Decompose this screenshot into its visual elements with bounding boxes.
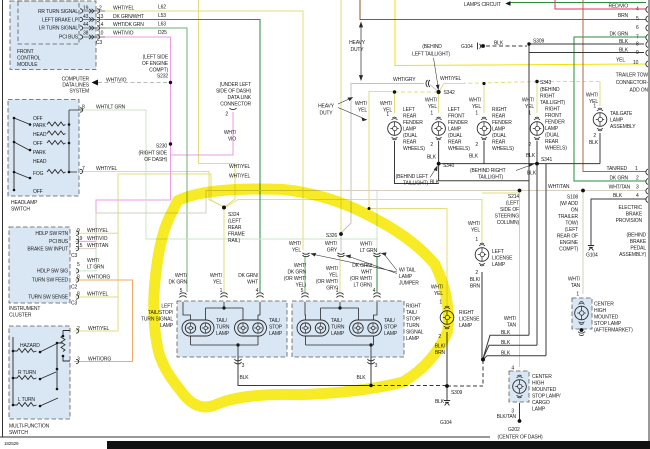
right tail/stop/turn signal lamp box [292,301,404,357]
svg-text:WHT/: WHT/ [289,241,302,247]
svg-text:RIGHT: RIGHT [492,107,507,113]
wire WHT/YEL S343 to tailgate lamp [537,81,600,83]
svg-text:DK GRN/: DK GRN/ [352,263,373,269]
svg-text:BLK: BLK [526,153,536,159]
svg-text:38: 38 [83,31,89,37]
wire WHT/YEL riser S342 to left front fender lamp pin 1 [438,92,440,113]
svg-text:3: 3 [242,363,245,369]
trailer tow connector brackets [646,7,648,203]
svg-text:LEFT TAILLIGHT): LEFT TAILLIGHT) [412,52,450,58]
svg-text:TURN: TURN [406,323,420,329]
svg-text:L TURN: L TURN [18,397,35,403]
svg-text:RIGHT: RIGHT [545,107,560,113]
svg-text:OFF: OFF [33,116,43,122]
svg-text:TAILGATE: TAILGATE [610,111,633,117]
svg-text:TAIL/: TAIL/ [406,310,418,316]
wire BLK S309 to trailer tow pins 8 and 9 and down [529,44,644,335]
tail/turn lamp left box [182,320,214,336]
left license lamp bulb [475,243,489,266]
svg-text:LEFT: LEFT [403,107,415,113]
svg-text:LT GRN: LT GRN [87,265,105,271]
node S309 bottom [445,384,449,388]
svg-text:WHT/: WHT/ [87,258,100,264]
svg-text:10: 10 [633,60,639,66]
svg-text:MULTI-FUNCTION: MULTI-FUNCTION [9,424,50,430]
svg-text:WHT/ORG: WHT/ORG [87,275,110,281]
svg-text:LAMP: LAMP [331,331,345,337]
svg-text:FOG: FOG [33,171,44,177]
svg-text:2: 2 [99,6,102,12]
wire BLK three lines to junction near license lamps [483,335,546,359]
wire WHT/YEL riser S343 to right front fender lamp pin 1 [536,82,538,114]
svg-text:HAZARD: HAZARD [20,343,40,349]
svg-text:WHT/: WHT/ [380,101,393,107]
svg-text:1: 1 [475,111,478,117]
svg-text:YEL: YEL [428,104,437,110]
svg-text:LAMP: LAMP [384,331,398,337]
wht/gry inline connector [426,80,430,87]
svg-text:TURN SW FEED: TURN SW FEED [32,278,69,284]
svg-text:BLK: BLK [469,154,479,160]
instrument cluster box [9,227,70,303]
svg-text:182529: 182529 [4,441,19,446]
svg-text:FENDER: FENDER [545,120,565,126]
svg-text:WHT: WHT [247,280,258,286]
multi-function switch box [9,326,70,419]
wire DK GRN/WHT L53 FCM pin 13 to left box pin 4 [105,20,260,293]
svg-text:REAR: REAR [228,225,242,231]
svg-text:S309: S309 [533,39,544,45]
FCM pin labels [38,9,79,41]
node S324 [222,206,226,210]
svg-text:WHT/: WHT/ [504,316,517,322]
svg-text:LEFT: LEFT [492,249,504,255]
svg-text:BLK: BLK [435,399,445,405]
svg-text:1: 1 [576,292,579,298]
svg-text:TAN: TAN [507,323,517,329]
svg-text:(LEFT: (LEFT [228,219,241,225]
svg-text:OFF: OFF [33,141,43,147]
node S232 [169,81,172,84]
svg-text:TAN: TAN [571,283,581,289]
svg-text:43: 43 [83,14,89,20]
wire WHT/TAN S108 down to aftermarket stop lamp pin 1 [582,191,584,295]
svg-text:LAMPS CIRCUIT: LAMPS CIRCUIT [464,2,501,8]
svg-text:WHT/VIO: WHT/VIO [106,78,127,84]
node S343 [535,80,538,83]
svg-text:BRAKE SW INPUT: BRAKE SW INPUT [27,247,68,253]
svg-text:S232: S232 [157,74,168,80]
wire DK GRN lamps circuit top to trailer tow pins 7 and 2 [510,3,646,182]
tail/stop lamp left box [235,320,267,336]
svg-text:LAMP: LAMP [269,331,283,337]
svg-text:YEL: YEL [472,104,481,110]
lamp box pin chevrons [180,293,381,364]
multifunction switch labels [4,326,111,446]
wire WHT/DK GRN L63 FCM pin 14 to left box pin 5 [105,28,187,292]
svg-text:TAILLIGHT): TAILLIGHT) [540,100,566,106]
wire BLK/BRN left license lamp down to junction [481,272,483,360]
svg-text:HIGH: HIGH [594,308,606,314]
svg-text:PARK: PARK [33,150,46,156]
svg-text:S214: S214 [508,194,519,200]
svg-text:2: 2 [528,142,531,148]
svg-text:SIGNAL: SIGNAL [406,330,424,336]
svg-text:STEERING: STEERING [495,214,520,220]
wire BLK S309 to ground G104 [446,386,448,397]
S326 and connector labels [289,233,338,254]
svg-text:WHT/VIO: WHT/VIO [113,31,134,37]
svg-text:WHT/YEL: WHT/YEL [229,174,251,180]
svg-text:HEAD: HEAD [33,132,47,138]
svg-text:1: 1 [635,166,638,172]
wire WHT/YEL right license feed with riser to dashed bus [369,92,447,306]
wire WHT/VIO FCM pin 10 via S232 S230 to cluster pin 19 [75,37,171,241]
svg-text:9: 9 [77,228,80,234]
svg-text:TRAILER: TRAILER [558,214,579,220]
svg-text:ENGINE: ENGINE [560,240,579,246]
svg-text:BLK: BLK [501,351,511,357]
wire BLK dashed lamp bus to S309 [371,385,447,387]
svg-text:(OR WHT/: (OR WHT/ [350,276,373,282]
node riser 369 [368,207,371,210]
wire BLK fender lamp grounds bus S340 to S341 to tailgate [439,133,600,164]
svg-text:1: 1 [593,104,596,110]
svg-text:G104: G104 [461,44,473,50]
headlamp switch labels [11,105,126,213]
svg-text:WHT/DK GRN: WHT/DK GRN [113,22,144,28]
node S214 [518,189,522,193]
svg-text:1: 1 [220,288,223,294]
svg-text:TAIL/: TAIL/ [216,318,228,324]
svg-text:4: 4 [373,288,376,294]
G104 symbol top [478,43,485,50]
wire WHT/YEL instrument cluster pin 9 / multifunction pin 2 riser to S324 [75,174,224,233]
svg-text:C2: C2 [71,285,77,291]
S324 label [228,212,246,244]
svg-text:FENDER: FENDER [492,120,512,126]
center high mounted stop lamp / cargo lamp box [509,371,529,402]
svg-text:S340: S340 [443,163,454,169]
svg-text:BLK: BLK [619,48,629,54]
svg-text:YEL: YEL [329,273,338,279]
svg-text:WHT/YEL: WHT/YEL [113,6,135,12]
svg-text:WHT/VIO: WHT/VIO [87,236,108,242]
svg-text:YEL: YEL [358,108,367,114]
svg-text:MOUNTED: MOUNTED [532,387,557,393]
svg-text:1: 1 [475,237,478,243]
svg-text:ASSEMBLY): ASSEMBLY) [619,252,646,258]
svg-text:WHT/: WHT/ [586,93,599,99]
svg-text:G202: G202 [508,427,520,433]
svg-text:(BEHIND RIGHT: (BEHIND RIGHT [470,168,506,174]
svg-text:L53: L53 [158,13,166,19]
svg-text:3: 3 [77,357,80,363]
svg-text:YEL: YEL [213,280,222,286]
svg-text:C3: C3 [71,301,77,307]
heavy duty arrows center [338,98,367,121]
svg-text:BLK: BLK [239,375,249,381]
svg-text:HEAVY: HEAVY [349,40,366,46]
svg-text:BLK: BLK [589,140,599,146]
svg-text:2: 2 [475,142,478,148]
svg-text:REAR: REAR [492,114,506,120]
svg-text:DK GRN/: DK GRN/ [238,273,259,279]
wire WHT/YEL S324 right to left license lamp [225,200,482,244]
instrument cluster labels [27,231,68,301]
svg-text:WHT/TAN: WHT/TAN [87,243,109,249]
svg-text:2: 2 [430,142,433,148]
svg-text:(BEHIND: (BEHIND [626,233,646,239]
license lamp labels [459,249,513,329]
wire WHT/TAN cluster pin 15 to S214 S108 trailer tow pin 3 [75,191,646,249]
svg-text:BLK: BLK [430,180,440,186]
node BLK junction [481,358,485,362]
svg-text:WHT/: WHT/ [210,273,223,279]
svg-text:PEDAL: PEDAL [630,246,646,252]
svg-text:4: 4 [636,7,639,13]
svg-text:S309: S309 [451,390,462,396]
svg-text:LAMP: LAMP [532,407,546,413]
data link connector bracket [230,108,237,110]
svg-text:5: 5 [636,16,639,22]
svg-text:REAR: REAR [492,140,506,146]
svg-text:YEL: YEL [616,58,625,64]
svg-text:1: 1 [336,288,339,294]
wire WHT/LT GRN headlamp pin 8 and cluster pin 5 to jumper connector [75,110,377,271]
svg-text:ASSEMBLY: ASSEMBLY [610,124,636,130]
FCM pin brackets and arrows [80,9,105,39]
svg-text:HDLP SW RTN: HDLP SW RTN [35,231,68,237]
svg-text:WHEELS): WHEELS) [403,146,425,152]
svg-text:MODULE: MODULE [17,62,38,68]
highlighter swash [154,189,449,407]
svg-text:COLUMN): COLUMN) [497,220,520,226]
svg-text:STOP/: STOP/ [406,317,421,323]
svg-text:D25: D25 [158,30,167,36]
ground G104 right license [444,396,450,406]
wire BLK/TAN center stop lamp to G202 [519,403,521,421]
svg-text:(OR WHT/: (OR WHT/ [316,279,339,285]
svg-text:10: 10 [98,31,104,37]
svg-text:C3: C3 [96,40,102,46]
svg-text:5: 5 [301,288,304,294]
center stop lamp labels [532,302,633,413]
svg-text:LAMP: LAMP [406,336,420,342]
svg-text:7: 7 [636,35,639,41]
svg-text:WHT/: WHT/ [360,242,373,248]
svg-text:LAMP: LAMP [545,126,559,132]
svg-text:MOUNTED: MOUNTED [594,315,619,321]
svg-text:S108: S108 [567,195,578,201]
svg-text:SIDE OF: SIDE OF [500,207,519,213]
right license lamp bulb [440,306,454,329]
right front fender lamp [530,117,544,140]
wire BLK S340 ground run to S309 vertical [395,141,529,184]
svg-text:LAMP: LAMP [492,262,506,268]
svg-text:LR TURN SIGNAL: LR TURN SIGNAL [39,26,79,32]
svg-text:STOP: STOP [384,325,398,331]
svg-text:13: 13 [98,14,104,20]
svg-text:PCI BUS: PCI BUS [59,35,79,41]
svg-text:OFF: OFF [33,189,43,195]
svg-text:LEFT BRAKE LP: LEFT BRAKE LP [42,18,79,24]
svg-text:GRY: GRY [327,248,338,254]
svg-text:BLK: BLK [494,41,504,47]
svg-text:2: 2 [593,133,596,139]
svg-text:9: 9 [636,50,639,56]
svg-text:4: 4 [511,366,514,372]
svg-text:OF ENGINE: OF ENGINE [142,61,169,67]
svg-text:YEL: YEL [292,248,301,254]
svg-text:CONTROL: CONTROL [17,56,41,62]
label computer data lines system [62,55,169,95]
node S326 [339,232,343,236]
svg-text:DK GRN: DK GRN [609,176,628,182]
svg-text:WHT/ORG: WHT/ORG [88,357,111,363]
node aftermarket lamp ground [580,328,584,332]
wire WHT/YEL below connector to right box pin 1 [339,257,341,292]
left rear fender lamp [388,117,402,140]
svg-text:5: 5 [77,262,80,268]
svg-text:HDLP SW SIG: HDLP SW SIG [37,269,68,275]
wire WHT/GRY S326 to connector [340,234,342,252]
wire WHT/YEL segment near left license [482,192,519,194]
left box internal wiring [183,302,260,357]
svg-text:(LEFT: (LEFT [506,201,519,207]
wire WHT/YEL fender lamp bus S342 to S343 [439,84,462,93]
svg-text:OF DASH): OF DASH) [144,157,167,163]
node S342 [437,90,441,94]
multifunction switch internals: resistors, blades, bus [13,331,70,407]
taillight pointer arrows S340 S341 [430,164,533,178]
svg-text:BRN: BRN [618,13,629,19]
tail/stop lamp right box [350,320,382,336]
svg-text:WHT/: WHT/ [355,101,368,107]
svg-text:BLK: BLK [501,340,511,346]
svg-text:WHT/: WHT/ [469,98,482,104]
svg-text:(OR WHT/: (OR WHT/ [284,276,307,282]
svg-text:HEAVY: HEAVY [318,104,335,110]
svg-text:DATA LINK: DATA LINK [228,95,252,101]
svg-text:S342: S342 [444,90,455,96]
svg-text:WHT/TAN: WHT/TAN [548,184,570,190]
svg-text:WHT/GRY: WHT/GRY [393,77,416,83]
svg-text:L62: L62 [158,5,166,11]
svg-text:19: 19 [77,236,83,242]
svg-text:TAIL/: TAIL/ [384,318,396,324]
lamp box outside labels [141,304,174,330]
wire BLK trailer tow pin 4 to electric brake ground G104 [591,199,646,241]
svg-text:WHT/YEL: WHT/YEL [229,164,251,170]
svg-text:6: 6 [636,25,639,31]
svg-text:WHT/TAN: WHT/TAN [609,185,631,191]
svg-text:(LEFT: (LEFT [565,227,578,233]
svg-text:LEFT: LEFT [161,304,173,310]
svg-text:WHT/: WHT/ [425,98,438,104]
wire BLK dashed junction to S309 [447,360,483,386]
center high mounted stop lamp (aftermarket) box [572,298,592,329]
wire WHT/VIO dashed to computer data lines [98,82,171,84]
svg-text:DUTY: DUTY [319,111,333,117]
svg-text:DUTY: DUTY [350,47,364,53]
svg-text:LEFT: LEFT [448,107,460,113]
svg-text:YEL: YEL [525,104,534,110]
svg-text:WHT/: WHT/ [468,221,481,227]
svg-text:WHEELS): WHEELS) [448,146,470,152]
svg-text:LICENSE: LICENSE [492,256,513,262]
svg-text:3: 3 [375,363,378,369]
svg-text:TAILLIGHT): TAILLIGHT) [478,175,504,181]
svg-text:HEAD: HEAD [33,159,47,165]
svg-text:WHT/: WHT/ [224,130,237,136]
node S230 [169,142,172,145]
svg-text:COMPT): COMPT) [559,247,578,253]
jumper arrows [311,253,397,274]
svg-text:(CENTER OF DASH): (CENTER OF DASH) [497,435,543,441]
svg-text:BLK: BLK [527,171,537,177]
svg-text:BLK: BLK [613,193,623,199]
wire DK GRN/WHT below jumper connector to right box pin 4 [376,257,378,292]
svg-text:R TURN: R TURN [18,370,36,376]
node S341 [535,162,539,166]
heavy duty labels [318,40,366,117]
node S340 [437,162,441,166]
svg-text:DK GRN: DK GRN [287,270,306,276]
svg-text:44: 44 [83,22,89,28]
svg-text:LAMP: LAMP [459,323,473,329]
svg-text:DK GRN: DK GRN [168,280,187,286]
svg-text:2: 2 [77,326,80,332]
svg-text:(W/ ADD: (W/ ADD [560,201,579,207]
tailgate lamp assembly bulb [593,108,607,131]
svg-text:ADD ON: ADD ON [629,88,648,94]
wire WHT/YEL dashed segment to S342 [395,91,439,93]
svg-text:S230: S230 [156,144,167,150]
svg-text:FRONT: FRONT [17,49,34,55]
svg-text:BRAKE: BRAKE [626,212,643,218]
svg-text:FRONT: FRONT [448,114,465,120]
svg-text:LAMP: LAMP [160,323,174,329]
instrument cluster pin brackets [76,231,79,299]
wire WHT/YEL riser to right rear fender lamp pin 1 [483,84,485,114]
wire BLK dashed G104 to S309 top [486,45,527,47]
svg-text:(DUAL: (DUAL [492,133,507,139]
heavy duty double arrow top [359,23,362,81]
wire TAN/RED from top to lower connector pin 1 [583,0,646,172]
svg-text:TURN: TURN [331,325,345,331]
left tail/stop/turn signal lamp box [177,301,287,357]
svg-text:2: 2 [475,270,478,276]
svg-text:STOP LAMP: STOP LAMP [594,321,622,327]
tail/turn lamp right box [297,320,329,336]
svg-text:BLK: BLK [356,375,366,381]
svg-text:(BEHIND: (BEHIND [540,87,560,93]
svg-text:BLK/: BLK/ [470,277,481,283]
svg-text:REAR OF: REAR OF [557,234,578,240]
svg-text:LAMP: LAMP [399,274,413,280]
pointer from behind-left-taillight label to S342 [434,58,440,90]
svg-text:BRN: BRN [470,284,481,290]
svg-text:BRAKE: BRAKE [630,239,647,245]
computer data lines arrow [92,80,99,86]
svg-text:WHT/: WHT/ [175,273,188,279]
svg-text:BLK/TAN: BLK/TAN [497,414,517,420]
svg-text:RED/VIO: RED/VIO [608,4,628,10]
svg-text:WHT/YEL: WHT/YEL [96,166,118,172]
lamp box pin column labels [168,263,372,292]
svg-text:(DUAL: (DUAL [545,133,560,139]
